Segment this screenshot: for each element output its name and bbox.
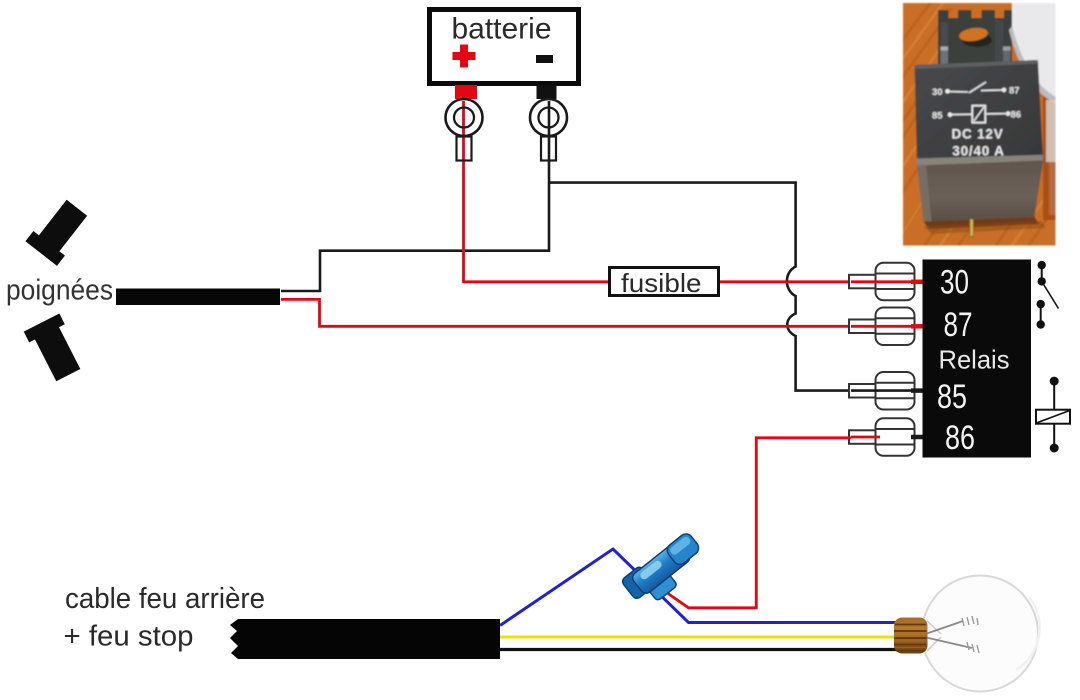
wire black cable to bulb — [500, 648, 900, 651]
label cable feu arrière + feu stop — [64, 583, 266, 653]
svg-text:Relais: Relais — [939, 345, 1010, 375]
wire red relay 86 to tap connector — [668, 438, 851, 608]
svg-text:cable feu arrière: cable feu arrière — [65, 583, 265, 615]
svg-text:DC 12V: DC 12V — [951, 127, 1003, 142]
wire black branch - to relay 85 (vertical with two hops) — [549, 183, 848, 391]
battery B1 — [430, 10, 579, 84]
pin label 86 — [945, 419, 975, 457]
spade connector pin 86 — [849, 418, 923, 456]
battery plus mark — [453, 45, 476, 68]
battery minus mark — [536, 55, 553, 63]
wire blue cable to bulb via tap — [500, 549, 900, 626]
grips cable — [116, 289, 280, 306]
relay photo — [880, 0, 1060, 265]
spade connector pin 30 — [849, 263, 923, 301]
ring terminal on + — [446, 99, 483, 161]
svg-text:+ feu stop: + feu stop — [64, 621, 194, 653]
battery + terminal stub — [455, 85, 477, 99]
ring terminal fills — [446, 99, 568, 161]
heated grip lower — [24, 314, 86, 385]
svg-text:87: 87 — [1009, 86, 1020, 97]
photo relay mounting tab — [938, 10, 1012, 73]
relay K1 body — [923, 260, 1032, 458]
pin label 85 — [937, 378, 967, 416]
photo relay printed schematic — [932, 82, 1021, 159]
svg-text:30: 30 — [940, 264, 969, 302]
bulb lamp — [894, 576, 1040, 692]
ring terminal on - — [530, 99, 567, 161]
switch contact symbol — [1037, 261, 1059, 329]
photo white paper patch — [1009, 3, 1056, 162]
rear light cable — [230, 619, 500, 659]
spade connector pin 85 — [849, 372, 923, 410]
svg-text:85: 85 — [932, 111, 943, 122]
svg-text:85: 85 — [937, 378, 967, 416]
heated grip upper — [25, 195, 92, 265]
svg-text:30/40 A: 30/40 A — [952, 144, 1004, 159]
svg-text:86: 86 — [1011, 110, 1022, 121]
svg-text:87: 87 — [944, 306, 973, 344]
coil symbol — [1036, 377, 1070, 453]
pin label 30 — [940, 264, 969, 302]
fuse F1 — [610, 268, 719, 299]
svg-text:fusible: fusible — [621, 268, 702, 298]
photo relay body bottom — [917, 161, 1046, 237]
wire red grips to relay 87 — [281, 299, 921, 326]
tap connector (scotchlok) — [621, 529, 710, 611]
wire black from - to grips cable — [281, 101, 549, 291]
label Relais — [939, 345, 1010, 375]
label poignées — [6, 275, 113, 307]
battery - terminal stub — [537, 85, 557, 99]
svg-text:batterie: batterie — [452, 13, 552, 46]
wire yellow cable to bulb — [500, 636, 894, 639]
svg-text:30: 30 — [932, 87, 943, 98]
wire red + to fuse to relay 30 — [464, 101, 922, 282]
photo wood background — [880, 0, 1060, 265]
photo relay body front face — [915, 60, 1044, 166]
svg-text:86: 86 — [945, 419, 975, 457]
svg-text:poignées: poignées — [6, 275, 113, 307]
spade connector pin 87 — [849, 308, 923, 346]
pin label 87 — [944, 306, 973, 344]
